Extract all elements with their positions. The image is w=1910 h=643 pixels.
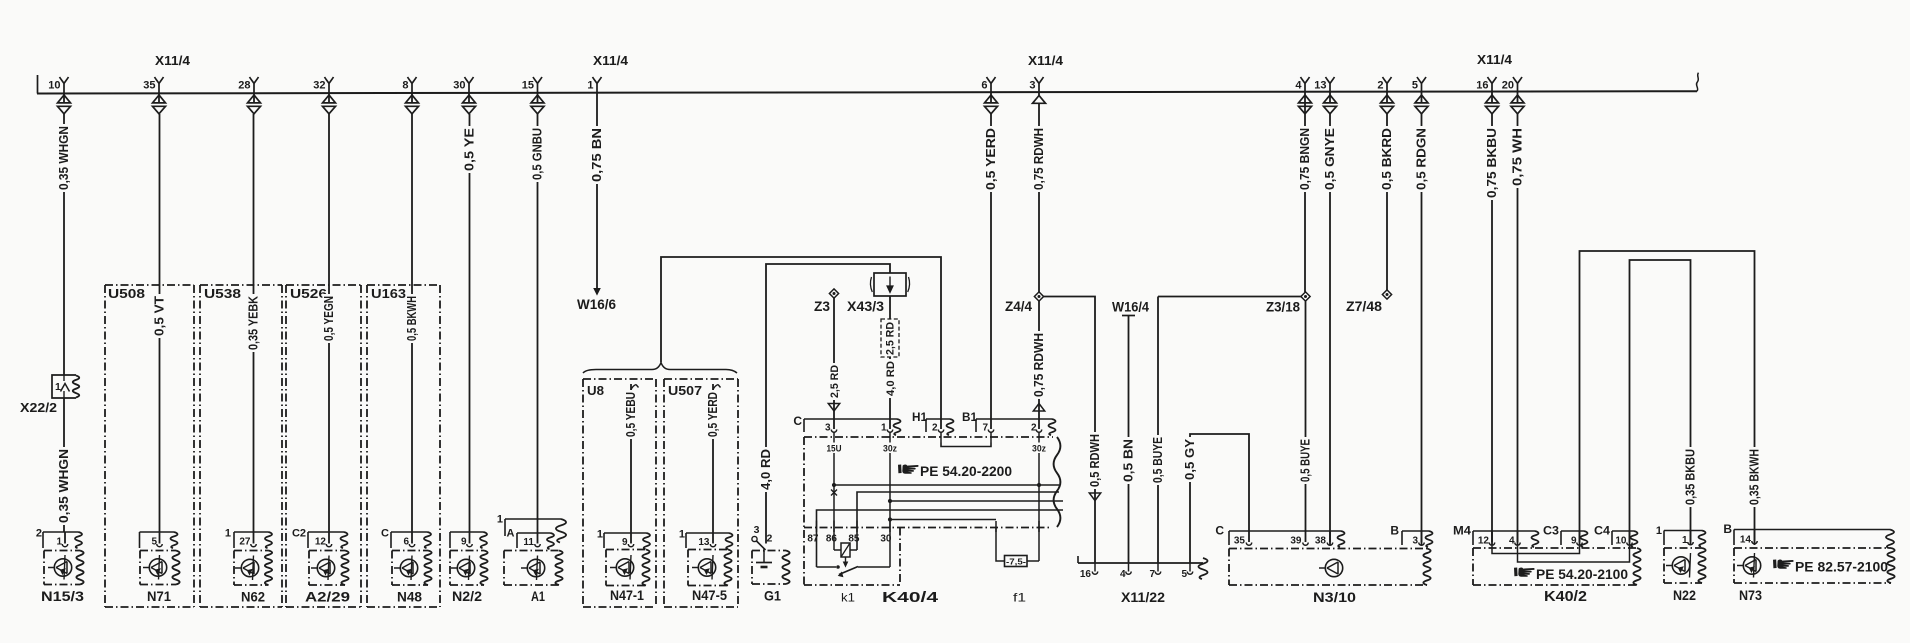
wire 0,75 BNGN pin4 to Z3/18 <box>1304 104 1306 293</box>
svg-text:6: 6 <box>981 80 987 92</box>
connector X11/22 pin hooks <box>1092 563 1192 574</box>
relay module K40/4 outline <box>804 437 1060 585</box>
wire 0,5 YERD pin6 to B1 <box>990 114 992 419</box>
svg-text:G1: G1 <box>764 589 781 605</box>
wire label 0,75 BNGN <box>1298 126 1312 192</box>
svg-text:2: 2 <box>1031 423 1037 434</box>
wire label 0,5 BN <box>1121 437 1135 484</box>
svg-text:B: B <box>1390 524 1399 538</box>
label X43/3 <box>847 299 885 314</box>
svg-text:1: 1 <box>597 529 603 541</box>
svg-text:7: 7 <box>1149 569 1155 580</box>
svg-text:X11/4: X11/4 <box>1477 52 1513 67</box>
wire label 0,75 RDWH (lower) <box>1032 331 1046 399</box>
wire label 0,5 BUYE (pin7) <box>1151 435 1165 485</box>
wire 0,75 RDWH Z4/4 to K40/4 30z <box>1038 301 1040 419</box>
hand PE 54.20-2200 <box>898 464 1012 479</box>
svg-text:1: 1 <box>1682 535 1688 546</box>
svg-text:4: 4 <box>1509 536 1515 547</box>
internal bus line D (87) <box>817 510 1064 567</box>
svg-text:k1: k1 <box>841 591 855 605</box>
svg-text:14: 14 <box>1740 535 1752 546</box>
svg-text:H1: H1 <box>912 410 927 424</box>
wire 0,75 RDWH pin3 to Z4/4 <box>1038 104 1040 293</box>
svg-text:16: 16 <box>1080 569 1092 580</box>
wire 4,0 RD X43/3 to K40/4 pin1 <box>889 296 891 419</box>
svg-text:PE 82.57-2100: PE 82.57-2100 <box>1795 560 1888 575</box>
battery G1 box <box>752 551 790 585</box>
svg-text:PE 54.20-2200: PE 54.20-2200 <box>920 464 1012 479</box>
svg-text:K40/2: K40/2 <box>1544 589 1587 605</box>
wire label 0,5 YEGN <box>322 294 336 343</box>
terminal 15U label <box>826 442 842 455</box>
label N15/3 <box>41 589 84 605</box>
solder point Z3/18 <box>1266 292 1310 315</box>
control unit N48 box <box>392 551 432 586</box>
svg-text:32: 32 <box>313 80 325 92</box>
wire 0,5 RDGN pin5 to N3/10 pin3 <box>1421 114 1423 545</box>
wire label 0,75 BN <box>590 126 604 184</box>
svg-text:f1: f1 <box>1013 591 1026 605</box>
svg-text:86: 86 <box>826 534 838 545</box>
svg-text:0,5 YERD: 0,5 YERD <box>706 392 720 437</box>
connector bracket N3/10 C <box>1215 524 1344 548</box>
module pin ticks through top edge <box>834 432 1039 443</box>
bus pin 30 X11/4 <box>453 77 475 114</box>
svg-text:N47-1: N47-1 <box>610 587 644 603</box>
wire 2,5 RD Z3 to K40/4 pin3 <box>833 298 835 419</box>
wire K40/2 pin9 to N73 pin14 (loop) <box>1580 251 1755 545</box>
svg-text:N48: N48 <box>397 590 422 606</box>
svg-text:8: 8 <box>402 80 408 92</box>
svg-text:A2/29: A2/29 <box>305 590 350 606</box>
svg-text:N22: N22 <box>1673 588 1696 604</box>
control unit A2/29 symbol <box>311 556 335 581</box>
wire 0,5 GNYE pin13 to N3/10 pin38 <box>1329 114 1331 545</box>
connector label X11/4 (4) <box>1477 52 1513 67</box>
bus pin 35 X11/4 <box>143 77 165 114</box>
internal bus line E (30z to f1) <box>888 517 996 521</box>
connector X11/22 <box>1078 556 1208 580</box>
connector X22/2 <box>52 375 79 398</box>
svg-text:U538: U538 <box>204 287 241 301</box>
connector bracket K40/2 C4 <box>1594 524 1638 548</box>
connector label X11/4 (3) <box>1028 53 1064 68</box>
svg-text:N62: N62 <box>241 590 265 606</box>
svg-text:U8: U8 <box>587 384 604 398</box>
relay module K40/2 box <box>1473 548 1641 585</box>
svg-text:Z4/4: Z4/4 <box>1005 299 1032 314</box>
label k1 <box>841 591 855 605</box>
control unit N62 box <box>234 551 272 586</box>
svg-text:1: 1 <box>587 80 593 92</box>
bus pin 28 X11/4 <box>238 77 260 114</box>
svg-text:1: 1 <box>1656 525 1662 537</box>
svg-text:U508: U508 <box>108 287 145 301</box>
connector bracket N62 pin 27 (group 1) <box>225 528 272 549</box>
internal wire 30z-right vertical <box>1038 453 1040 561</box>
label U163 <box>371 287 406 301</box>
wire Z4/4 to X11/22 pin16 <box>1044 297 1095 564</box>
relay pin ticks <box>817 521 891 533</box>
label G1 <box>764 589 781 605</box>
wire H1 feed horizontal <box>661 257 941 419</box>
svg-text:C: C <box>381 528 389 540</box>
svg-text:15U: 15U <box>827 444 842 455</box>
wire gauge box 2,5 RD <box>881 319 899 357</box>
wire Z3/18 branch to X11/22 pin7 <box>1158 297 1301 564</box>
wire 0,5 BN W16/4 to X11/22 pin4 <box>1128 316 1130 564</box>
wire label 0,35 BKWH <box>1747 447 1761 507</box>
hand PE 54.20-2100 <box>1514 567 1628 582</box>
svg-text:0,5 BKWH: 0,5 BKWH <box>405 296 419 341</box>
svg-text:13: 13 <box>1314 80 1326 92</box>
wire label 0,5 YERD <box>706 390 720 439</box>
svg-text:A1: A1 <box>531 589 545 605</box>
svg-text:13: 13 <box>698 537 710 548</box>
bus pin 3 X11/4 <box>1029 77 1045 103</box>
wire 0,5 BKRD pin2 to Z7/48 <box>1386 114 1388 290</box>
wire label 0,5 VT <box>152 294 166 338</box>
shield box U538 <box>200 285 282 607</box>
svg-text:16: 16 <box>1476 80 1488 92</box>
internal wire 30z-left vertical <box>889 453 891 567</box>
svg-text:0,75 BNGN: 0,75 BNGN <box>1298 128 1312 190</box>
label N73 <box>1739 588 1762 604</box>
svg-text:0,5 GNBU: 0,5 GNBU <box>530 128 544 180</box>
connector bracket H1 <box>912 410 954 435</box>
svg-text:N15/3: N15/3 <box>41 589 84 605</box>
fuse f1 <box>996 528 1039 567</box>
control unit N62 symbol <box>235 556 259 581</box>
solder point Z4/4 <box>1005 292 1044 314</box>
svg-text:U163: U163 <box>371 287 406 301</box>
internal link pin4 to pin10 <box>1518 546 1630 562</box>
svg-text:1: 1 <box>497 514 503 526</box>
shield box U8 <box>583 379 656 607</box>
svg-text:39: 39 <box>1290 536 1302 547</box>
bus pin 8 X11/4 <box>402 77 418 114</box>
svg-text:X11/4: X11/4 <box>1028 53 1064 68</box>
svg-text:3: 3 <box>1029 80 1035 92</box>
svg-text:0,75 RDWH: 0,75 RDWH <box>1032 333 1046 397</box>
control unit N22 box <box>1664 548 1706 583</box>
internal bridge H1-2 to B1-7 <box>941 443 991 447</box>
svg-text:W16/4: W16/4 <box>1112 300 1149 315</box>
control unit A2/29 box <box>309 551 349 586</box>
control unit N2/2 box <box>450 551 488 586</box>
connector bracket N47-5 pin 13 (group 1) <box>679 529 733 550</box>
control unit N71 box <box>140 551 180 585</box>
wire label 4,0 RD inline <box>884 359 897 398</box>
wire 0,35 WHGN X22/2 to N15/3 <box>63 398 65 532</box>
svg-text:10: 10 <box>48 80 60 92</box>
svg-text:1: 1 <box>881 423 887 434</box>
connector bracket A1 pin 11 (group A) <box>507 528 554 550</box>
svg-text:3: 3 <box>825 423 831 434</box>
svg-text:7: 7 <box>982 423 988 434</box>
svg-text:0,5 BUYE: 0,5 BUYE <box>1298 439 1312 482</box>
wire 0,5 YE pin30 to N2/2 <box>469 114 471 532</box>
label f1 <box>1013 591 1026 605</box>
label U538 <box>204 287 241 301</box>
svg-text:38: 38 <box>1315 536 1327 547</box>
wire label 0,5 GNBU <box>530 126 544 182</box>
label A2/29 <box>305 590 350 606</box>
svg-text:35: 35 <box>1234 536 1246 547</box>
wire label 0,5 RDWH <box>1088 432 1102 489</box>
bus pin 1 X11/4 <box>587 77 601 93</box>
svg-text:X11/22: X11/22 <box>1121 590 1165 606</box>
control unit A1 symbol <box>521 556 545 581</box>
label K40/4 <box>882 589 939 606</box>
svg-text:2: 2 <box>36 528 42 540</box>
control unit N15/3 box <box>44 551 84 585</box>
wire label 2,5 RD <box>828 363 841 400</box>
internal wire 15U vertical <box>833 453 835 550</box>
wire label 0,5 GNYE <box>1323 126 1337 192</box>
label X22/2 <box>20 401 57 415</box>
bus pin 32 X11/4 <box>313 77 335 114</box>
bus pin 5 X11/4 <box>1412 77 1428 114</box>
svg-text:U507: U507 <box>668 384 702 398</box>
control unit N3/10 box <box>1229 549 1431 586</box>
control unit N71 symbol <box>143 555 167 580</box>
svg-text:X11/4: X11/4 <box>155 53 191 68</box>
connector bracket A2/29 pin 12 (group C2) <box>292 528 348 549</box>
label N48 <box>397 590 422 606</box>
hand PE 82.57-2100 <box>1773 559 1888 574</box>
label U526 <box>290 287 327 301</box>
svg-text:1: 1 <box>56 537 62 548</box>
svg-text:0,5 GNYE: 0,5 GNYE <box>1323 128 1337 190</box>
control unit A1 box <box>504 551 563 586</box>
wire 0,5 BKWH pin8 to N48 <box>411 114 413 532</box>
svg-text:C2: C2 <box>292 528 306 540</box>
bus pin 2 X11/4 <box>1377 77 1393 114</box>
ground W16/4 <box>1112 300 1149 316</box>
wire label 0,5 GY <box>1183 437 1197 482</box>
contact sleeve ▽ on Z3 wire <box>828 404 839 412</box>
connector bracket N47-1 pin 9 (group 1) <box>597 529 650 550</box>
svg-text:3: 3 <box>1412 536 1418 547</box>
svg-text:2: 2 <box>1377 80 1383 92</box>
connector bracket K40/2 M4 <box>1453 524 1539 548</box>
relay k1 coil <box>834 543 857 567</box>
internal bus line C (30z) <box>888 499 1063 503</box>
module pin ticks through mid edge <box>996 521 1039 532</box>
connector bracket C (K40/4) <box>793 414 900 435</box>
svg-text:X22/2: X22/2 <box>20 401 57 415</box>
battery G1 terminal clamp <box>752 524 773 552</box>
connector bracket N48 pin 6 (group C) <box>381 528 431 549</box>
svg-text:35: 35 <box>143 80 155 92</box>
svg-text:0,5 RDWH: 0,5 RDWH <box>1088 434 1102 487</box>
wire 0,75 WH pin20 to K40/2 pin4 <box>1517 114 1519 545</box>
bus pin 15 X11/4 <box>522 77 544 114</box>
connector X43/3 <box>870 273 909 296</box>
connector bracket N22 pin 1 (group 1) <box>1656 525 1706 547</box>
svg-text:1: 1 <box>225 528 231 540</box>
connector bracket N73 pin 14 (group B) <box>1723 522 1894 548</box>
svg-text:0,5 VT: 0,5 VT <box>152 296 166 336</box>
bus pin 6 X11/4 <box>981 77 997 114</box>
bus pin 4 X11/4 <box>1295 77 1311 114</box>
svg-text:3: 3 <box>754 524 760 536</box>
svg-text:Z7/48: Z7/48 <box>1346 299 1383 314</box>
control unit N73 box <box>1734 548 1895 583</box>
wire 0,75 BN pin1 to W16/6 <box>596 93 598 289</box>
internal bus line B (85) <box>857 492 1059 550</box>
wire 0,5 YEBU to N47-1 <box>631 384 639 533</box>
control unit N47-1 symbol <box>610 555 634 580</box>
svg-text:0,5 YERD: 0,5 YERD <box>984 128 998 190</box>
control unit N22 symbol <box>1666 553 1691 578</box>
label N47-1 <box>610 587 644 603</box>
label N71 <box>147 589 171 605</box>
wire 0,5 YERD to N47-5 <box>713 384 721 533</box>
bus pin 20 X11/4 <box>1502 77 1524 114</box>
svg-text:C4: C4 <box>1594 524 1610 538</box>
control unit N47-5 symbol <box>692 555 716 580</box>
wire label 0,5 BUYE (N3/10) <box>1298 437 1312 484</box>
svg-text:2,5 RD: 2,5 RD <box>885 322 897 355</box>
svg-text:0,35 WHGN: 0,35 WHGN <box>57 126 71 190</box>
control unit N48 symbol <box>394 556 418 581</box>
svg-text:15: 15 <box>522 80 534 92</box>
svg-text:20: 20 <box>1502 80 1514 92</box>
svg-text:5: 5 <box>1181 569 1187 580</box>
shield box U526 <box>286 285 361 607</box>
connector bracket N71 pin 5 <box>140 532 178 548</box>
relay k1 switch <box>817 565 891 576</box>
wire label 0,5 RDGN <box>1414 126 1428 192</box>
internal bus line A (15U) <box>832 483 1059 487</box>
svg-text:2: 2 <box>932 423 938 434</box>
svg-text:W16/6: W16/6 <box>577 297 616 312</box>
svg-text:N47-5: N47-5 <box>692 587 727 603</box>
svg-text:11: 11 <box>523 537 534 548</box>
label N2/2 <box>452 589 482 605</box>
svg-text:0,35 BKWH: 0,35 BKWH <box>1747 449 1761 505</box>
control unit N3/10 symbol <box>1319 559 1343 576</box>
internal link pin12 to pin9 <box>1492 546 1580 554</box>
bus pin 13 X11/4 <box>1314 77 1336 114</box>
connector bracket K40/2 C3 <box>1543 524 1588 548</box>
solder point Z3 <box>814 289 839 314</box>
wire 0,35 WHGN pin10 to X22/2 <box>63 114 65 375</box>
wire label 0,75 RDWH (upper) <box>1032 126 1046 192</box>
svg-text:1: 1 <box>679 529 685 541</box>
svg-text:30: 30 <box>453 80 465 92</box>
svg-text:12: 12 <box>315 537 327 548</box>
svg-text:0,35 YEBK: 0,35 YEBK <box>246 296 260 350</box>
branch brace over U8/U507 <box>583 363 737 374</box>
label K40/2 <box>1544 589 1587 605</box>
svg-text:5: 5 <box>1412 80 1418 92</box>
connector label X11/4 (1) <box>155 53 191 68</box>
wire label 0,5 YE <box>462 126 476 173</box>
shield box U508 <box>105 285 194 607</box>
wire main bus X11/4 <box>37 73 1699 94</box>
wire label 0,5 BKWH <box>405 294 419 343</box>
svg-text:0,35 BKBU: 0,35 BKBU <box>1683 449 1697 505</box>
svg-text:0,5 BKRD: 0,5 BKRD <box>1380 128 1394 190</box>
svg-text:-7,5-: -7,5- <box>1006 557 1026 566</box>
wire label 0,35 WHGN (lower) <box>57 447 71 525</box>
label W16/6 <box>577 297 616 312</box>
svg-text:4: 4 <box>1120 569 1126 580</box>
svg-text:28: 28 <box>238 80 250 92</box>
wire label 4,0 RD <box>759 447 773 492</box>
wire label 0,5 YEBU <box>624 390 638 439</box>
svg-text:N3/10: N3/10 <box>1313 590 1356 606</box>
relay pin numbers 87 86 85 30 <box>807 534 892 545</box>
svg-text:12: 12 <box>1478 536 1490 547</box>
crossing mark on 15U wire <box>831 490 837 496</box>
svg-text:C3: C3 <box>1543 524 1559 538</box>
contact sleeve △ on Z4/4 wire <box>1033 404 1044 412</box>
label A1 <box>531 589 545 605</box>
svg-text:4,0 RD: 4,0 RD <box>759 449 773 490</box>
control unit N47-1 box <box>606 550 650 586</box>
connector bracket N15/3 pin 1 (group 2) <box>36 528 82 549</box>
wire label 0,75 BKBU <box>1485 126 1499 200</box>
svg-text:30: 30 <box>880 534 892 545</box>
svg-text:0,75 BKBU: 0,75 BKBU <box>1485 128 1499 198</box>
svg-text:K40/4: K40/4 <box>882 589 939 606</box>
control unit N47-5 box <box>688 550 732 586</box>
label N62 <box>241 590 265 606</box>
svg-text:B: B <box>1723 522 1732 536</box>
svg-text:N71: N71 <box>147 589 171 605</box>
svg-text:N2/2: N2/2 <box>452 589 482 605</box>
svg-text:0,5 GY: 0,5 GY <box>1183 438 1197 480</box>
wire 0,75 BKBU pin16 to K40/2 pin12 <box>1491 114 1493 545</box>
connector bracket A1 pin 1 (outer) <box>497 514 566 543</box>
wire label 0,5 BKRD <box>1380 126 1394 192</box>
svg-text:87: 87 <box>807 534 819 545</box>
wire 4,0 RD X43/3 feed <box>766 264 890 544</box>
svg-text:B1: B1 <box>962 410 977 424</box>
svg-text:30z: 30z <box>883 444 897 455</box>
svg-text:0,5 YE: 0,5 YE <box>462 128 476 171</box>
svg-text:4,0 RD: 4,0 RD <box>885 361 897 396</box>
svg-text:10: 10 <box>1615 536 1627 547</box>
connector label X11/4 (2) <box>593 53 629 68</box>
ground point W16/6 arrow <box>594 289 600 295</box>
wire 0,5 GY X11/22 pin5 to N3/10 pin35 <box>1190 434 1249 563</box>
wire 0,5 GNBU pin15 to A1 <box>537 114 539 533</box>
svg-text:9: 9 <box>622 537 628 548</box>
svg-text:N73: N73 <box>1739 588 1762 604</box>
svg-text:9: 9 <box>461 537 467 548</box>
wire label 0,35 BKBU <box>1683 447 1697 507</box>
label U507 <box>668 384 702 398</box>
svg-text:6: 6 <box>403 537 409 548</box>
svg-text:2: 2 <box>767 533 773 545</box>
svg-text:27: 27 <box>239 537 251 548</box>
wire 0,5 BUYE Z3/18 to N3/10 <box>1305 301 1307 531</box>
svg-text:X43/3: X43/3 <box>847 299 885 314</box>
svg-text:PE 54.20-2100: PE 54.20-2100 <box>1536 567 1628 582</box>
wire 0,35 YEBK pin28 to N62 <box>253 114 255 532</box>
solder point Z7/48 <box>1346 290 1392 314</box>
wire label 0,35 WHGN (upper) <box>57 124 71 192</box>
label U8 <box>587 384 604 398</box>
svg-text:Z3/18: Z3/18 <box>1266 300 1300 315</box>
shield box U507 <box>664 379 738 607</box>
